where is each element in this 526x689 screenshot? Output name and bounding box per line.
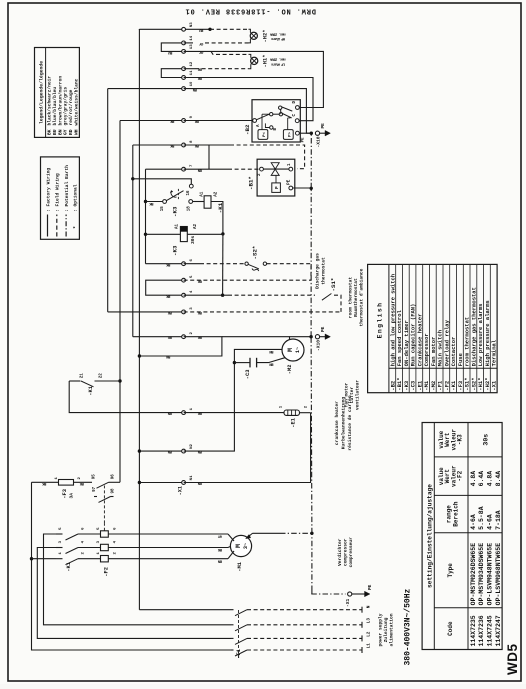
svg-text:BU: BU <box>52 129 58 135</box>
terminal -X1:N2 <box>182 449 186 453</box>
wire rail L1 to fuse F3 <box>32 481 59 483</box>
English table header row <box>388 264 390 392</box>
English table row -F1 <box>435 264 437 392</box>
rail R3 y132.8 <box>132 145 134 337</box>
svg-text:white/weiss/blanc: white/weiss/blanc <box>73 78 79 125</box>
svg-text:-X10: -X10 <box>316 136 322 147</box>
wire terminal N3 to junction <box>186 28 211 30</box>
overload relay F2 element 1-2 <box>101 556 109 562</box>
wire B2 contact D return to terminal 13 <box>184 51 324 107</box>
svg-text:Raumthermostat: Raumthermostat <box>353 278 359 317</box>
wire terminal 2 to fan jog <box>139 337 222 356</box>
B2 X10 PE terminal <box>315 131 319 135</box>
svg-text:-K3: -K3 <box>457 434 464 445</box>
svg-text:114X7245: 114X7245 <box>487 615 494 646</box>
junction F2 elements link <box>103 523 105 530</box>
svg-text:P>: P> <box>287 132 292 137</box>
earth bus fan to B1 PE <box>310 337 313 534</box>
svg-text:-S2*: -S2* <box>252 246 259 260</box>
run capacitor -C3 <box>249 358 251 368</box>
svg-text:English: English <box>377 302 384 339</box>
svg-text:12: 12 <box>190 61 194 66</box>
svg-text:max. 28VA: max. 28VA <box>269 57 285 61</box>
B2 pole circles <box>270 113 273 116</box>
svg-text:-X1: -X1 <box>345 598 351 607</box>
wire terminal 2 to rail R3 <box>133 336 184 338</box>
wire K1 coil to K3 coil junction <box>211 202 223 234</box>
K3 timer contact lever <box>166 191 183 201</box>
svg-text:-K1: -K1 <box>88 386 94 396</box>
wire terminal N1 to neutral rail <box>139 482 183 484</box>
K3 timer contact pin 15 <box>163 200 167 204</box>
English table row -M2 <box>429 264 431 392</box>
B1 internal wire <box>263 168 289 170</box>
junction neutral rail / terminal N1 <box>138 481 141 484</box>
svg-text:ventilateur: ventilateur <box>355 380 361 411</box>
svg-text:N: N <box>367 605 372 608</box>
svg-text:: Field Wiring: : Field Wiring <box>55 173 61 212</box>
svg-text:18: 18 <box>188 206 192 212</box>
svg-text:15: 15 <box>161 206 165 212</box>
svg-text:-E1: -E1 <box>291 418 297 428</box>
B2 PE pin <box>296 131 300 135</box>
wire terminal 7 to B1 terminal 2 <box>184 168 228 170</box>
svg-text:legend/Legende/légende: legend/Legende/légende <box>39 61 45 124</box>
wire K1 aux to terminal 1 line <box>69 381 183 413</box>
svg-text:N3: N3 <box>190 22 194 27</box>
svg-text:14: 14 <box>190 35 194 40</box>
terminal -X1:N1 <box>182 481 186 485</box>
svg-text:3~: 3~ <box>243 543 249 549</box>
svg-text:OP-MSTM926DSW65E: OP-MSTM926DSW65E <box>470 543 477 606</box>
wire terminal 9 to rail R2 <box>120 120 184 122</box>
svg-text:98: 98 <box>112 488 116 494</box>
wire terminal 12 to LP lamp <box>184 68 195 70</box>
B2 X10 earth arrow <box>325 130 331 136</box>
svg-text:30s: 30s <box>190 235 196 244</box>
wire K3 contact 18 to K1 coil <box>193 201 205 203</box>
mechanical link F1 poles <box>238 610 240 658</box>
junction neutral rail / fan neutral jog <box>138 354 141 357</box>
svg-text:Terminal: Terminal <box>491 339 498 366</box>
svg-text:4.8A: 4.8A <box>487 471 494 487</box>
junction fan capacitor branch <box>233 361 236 364</box>
overload relay auxiliary contact 97-98 <box>94 496 97 498</box>
jumper terminals 13-14 <box>161 43 183 52</box>
fuse F3 3A <box>59 480 74 486</box>
main switch F1 pole L3 <box>231 624 234 626</box>
K3 mechanical link dashed <box>177 188 179 199</box>
English table row -H2* <box>483 264 485 392</box>
ON-delay timer coil -K3 <box>180 227 187 242</box>
K3 timer on-delay symbol <box>171 191 177 198</box>
svg-text:alimentation: alimentation <box>389 613 395 646</box>
rail L1 control feed y31 <box>32 482 232 650</box>
B2 lever to contact D <box>282 107 292 111</box>
wire K3 coil to terminal 4 line <box>187 233 223 235</box>
terminal -X1:2 <box>182 335 186 339</box>
settings table title row <box>433 423 435 650</box>
svg-text:PE: PE <box>368 584 373 590</box>
junction rail R4 / K3 coil branch <box>144 233 147 236</box>
svg-text:HP Alarm: HP Alarm <box>270 36 285 41</box>
wire terminal 3 to rail R0 <box>108 311 184 313</box>
wire rail R4 to K3 coil <box>146 233 181 235</box>
wire fan motor to terminal 2 line <box>290 337 312 339</box>
wire B2 contact C return to terminal 11 <box>184 78 313 121</box>
svg-text:22: 22 <box>100 373 104 379</box>
neutral rail y139.4 <box>138 29 140 610</box>
wire terminal 8 to rail R3 <box>133 144 184 146</box>
junction terminal 4 line / coil return <box>221 294 224 297</box>
wire terminal 10 to X10 earth junction <box>184 89 312 134</box>
junction neutral rail / terminal N2 <box>138 449 141 452</box>
B2 high pressure sensor <box>283 130 293 140</box>
wire rail R3 to K3 contact 16 <box>133 179 192 184</box>
wire S2 to terminal 5 line <box>267 264 311 281</box>
svg-text:: Factory Wiring: : Factory Wiring <box>45 168 51 212</box>
terminal -X1:N3 <box>182 27 186 31</box>
jumper terminals 7-8 below strip <box>208 145 210 169</box>
wire B1 PE to earth bus <box>293 187 312 189</box>
contactor coil -K1 <box>204 196 211 208</box>
svg-text:-B2: -B2 <box>244 124 251 135</box>
svg-text:-S1*: -S1* <box>330 278 337 292</box>
svg-text:OP-LSVM948NTW65E: OP-LSVM948NTW65E <box>487 543 494 606</box>
wire rail R4 to K3 contact 15 <box>146 201 163 203</box>
rail R0 y107.7 terminal 3 to terminal 10 <box>107 89 109 312</box>
svg-text:-K3: -K3 <box>172 206 179 217</box>
wire capacitor to fan motor auxiliary winding <box>257 358 285 363</box>
English designation table <box>368 264 498 392</box>
rail L2 y37 <box>37 548 231 639</box>
svg-text:BK: BK <box>47 129 53 135</box>
svg-text:-X1: -X1 <box>178 486 184 495</box>
junction terminal 13 line / LP lamp hook <box>211 51 249 54</box>
svg-text:-X10: -X10 <box>316 340 322 351</box>
B1 terminal 1 <box>289 167 293 171</box>
svg-text:1~: 1~ <box>295 347 301 353</box>
svg-text:6.4A: 6.4A <box>478 471 485 487</box>
LP alarm lamp -H1* <box>251 57 258 64</box>
svg-text:4-6A: 4-6A <box>487 514 494 530</box>
compressor PE connection arrow <box>248 533 253 537</box>
svg-text:range: range <box>445 505 452 523</box>
svg-text:N2: N2 <box>190 443 194 448</box>
English table row -C3 <box>408 264 410 392</box>
svg-text:A1: A1 <box>201 191 205 197</box>
svg-text:fan motor: fan motor <box>344 382 350 407</box>
svg-text:LP Alarm: LP Alarm <box>270 61 285 66</box>
wire terminal 9 to B2 common A <box>184 120 253 122</box>
svg-text:PE: PE <box>321 326 326 332</box>
svg-text:setting/Einstellung/ajustage: setting/Einstellung/ajustage <box>426 484 433 588</box>
terminal -X1:14 <box>182 41 186 45</box>
wire terminal 5 down to S2 return <box>184 279 311 281</box>
svg-text:Verdichter: Verdichter <box>337 538 343 566</box>
English table row -S1* <box>462 264 464 392</box>
B1 triac symbol <box>271 169 279 175</box>
svg-text:BN: BN <box>57 129 63 135</box>
room thermostat S1 contact <box>322 294 332 301</box>
supply PE wire <box>311 593 345 595</box>
svg-text:blue/blau/bleu: blue/blau/bleu <box>52 87 58 126</box>
terminal -X1:9 <box>182 119 186 123</box>
supply field wire L3 <box>247 624 362 626</box>
svg-text:compressor: compressor <box>344 538 349 566</box>
svg-text:4-6A: 4-6A <box>470 514 477 530</box>
wire compressor PE to earth bus <box>253 532 281 534</box>
svg-text:P: P <box>275 186 280 189</box>
supply field wire L2 <box>247 637 362 639</box>
discharge gas thermostat S2 contact <box>245 262 248 265</box>
junction B2 X10 PE <box>310 132 313 135</box>
svg-text:21: 21 <box>81 373 85 379</box>
svg-text:Code: Code <box>447 621 454 636</box>
mechanical link overload relay to aux contacts <box>103 486 105 524</box>
B1 PE terminal <box>289 186 293 190</box>
overload relay F2 element 3-4 <box>101 544 109 550</box>
crankcase heater -E1 <box>184 412 284 414</box>
terminal -X1:12 <box>182 67 186 71</box>
terminal -X1:5 <box>182 278 186 282</box>
B2 lever to contact C <box>282 114 291 118</box>
svg-text:: Optional: : Optional <box>73 184 79 212</box>
English table row -K3 <box>401 264 403 392</box>
svg-text:5.5-8A: 5.5-8A <box>478 506 485 530</box>
run capacitor -C3 branch wire <box>234 362 250 364</box>
wire terminal 3 down to S1 return <box>184 311 341 313</box>
svg-text:P<: P< <box>262 132 267 137</box>
wire terminal N2 to neutral rail <box>139 450 183 452</box>
wire terminal 8 to B1 terminal 1 <box>184 144 230 146</box>
junction fan X10 PE <box>309 335 312 338</box>
svg-text:A1: A1 <box>176 223 180 229</box>
junction rail R3 / K3 contact 16 branch <box>131 177 134 180</box>
svg-text:thermostat: thermostat <box>321 257 327 285</box>
K3 timer contact pin 16 <box>189 184 193 188</box>
svg-text:114X7235: 114X7235 <box>470 615 477 646</box>
K3 timer contact pin 18 <box>189 200 193 204</box>
English table row -H1* <box>476 264 478 392</box>
terminal -X1:11 <box>182 76 186 80</box>
svg-text:A2: A2 <box>194 223 198 229</box>
junction compressor PE / earth bus <box>310 532 313 535</box>
svg-text:96: 96 <box>112 474 116 480</box>
svg-text:black/schwarz/noir: black/schwarz/noir <box>47 76 53 126</box>
legend box line styles <box>41 157 80 239</box>
svg-text:-H1*: -H1* <box>263 55 269 68</box>
B2 contact C <box>295 119 299 123</box>
svg-text:Lüfter: Lüfter <box>349 386 355 403</box>
svg-text:*: * <box>73 226 79 229</box>
compressor motor -M1 <box>230 535 251 556</box>
contactor K1 pole 5-6 <box>56 533 63 535</box>
svg-text:-F3: -F3 <box>62 489 68 499</box>
svg-text:13: 13 <box>190 44 194 49</box>
svg-text:-K3: -K3 <box>172 245 179 256</box>
svg-text:114X7236: 114X7236 <box>478 615 485 646</box>
wire terminal 6 to discharge gas thermostat <box>184 263 200 265</box>
terminal -X1:3 <box>182 310 186 314</box>
rail R2 y120 F3 feed <box>119 121 121 483</box>
junction rail L1/BN phase <box>30 557 33 560</box>
svg-text:brown/braun/marron: brown/braun/marron <box>57 76 63 126</box>
wire M1 phase BN into motor <box>228 551 234 559</box>
svg-text:-C3: -C3 <box>245 370 251 380</box>
pressure switch -B2 enclosure <box>252 100 300 142</box>
English table row -F2 <box>442 264 444 392</box>
svg-text:RD: RD <box>68 129 74 135</box>
HP alarm lamp -H2* <box>250 32 257 39</box>
svg-text:N1: N1 <box>190 475 194 480</box>
settings table header underline <box>467 423 469 650</box>
B2 low pressure sensor <box>258 130 268 140</box>
wire terminal N3 to neutral rail <box>139 28 183 30</box>
svg-text:grey/gray/gris: grey/gray/gris <box>63 87 69 126</box>
English table row -F3 <box>456 264 458 392</box>
wire B2 PE to X10 <box>299 132 311 134</box>
fan motor -M2 <box>282 339 304 361</box>
svg-text:-B1*: -B1* <box>248 176 255 190</box>
svg-text:380-400V3N~/50Hz: 380-400V3N~/50Hz <box>404 588 413 665</box>
English table row -E1 <box>415 264 417 392</box>
svg-text:OP-MSTM934DSW65E: OP-MSTM934DSW65E <box>478 543 485 606</box>
jumper terminals 11-12 <box>161 69 183 78</box>
svg-text:thermostat d'ambiance: thermostat d'ambiance <box>359 268 365 326</box>
svg-text:Discharge gas: Discharge gas <box>315 253 321 289</box>
svg-text:Bereich: Bereich <box>452 501 459 527</box>
wire terminal 7 to rail R4 <box>146 168 184 170</box>
supply field wire N <box>247 609 362 611</box>
svg-text:7-18A: 7-18A <box>495 510 502 530</box>
svg-text:-M1: -M1 <box>237 562 243 572</box>
B2 lever A to pole <box>256 114 269 120</box>
wire M1 phase GY into motor <box>228 534 234 541</box>
svg-text:M: M <box>287 348 294 352</box>
B2 contact B <box>270 126 273 129</box>
English table row -B1* <box>395 264 397 392</box>
English table designator column separator <box>389 367 497 369</box>
wire terminal N1 to crankcase heater <box>184 413 311 483</box>
svg-text:L3: L3 <box>367 618 372 624</box>
svg-text:97: 97 <box>93 486 97 492</box>
legend box colour codes <box>35 48 80 138</box>
svg-text:11: 11 <box>190 70 194 75</box>
wire fan neutral N2 to fan motor <box>184 349 283 451</box>
terminal -X1:4 <box>182 293 186 297</box>
legend field wiring sample <box>56 215 58 237</box>
svg-text:Type: Type <box>447 563 454 578</box>
fan X10 earth arrow <box>325 334 331 340</box>
svg-text:crankcase heater: crankcase heater <box>334 401 340 445</box>
svg-text:DRW. NO. -118R6338 REV. 01: DRW. NO. -118R6338 REV. 01 <box>185 7 316 15</box>
jumper terminals 4-5 <box>146 280 184 295</box>
legend factory wiring sample <box>47 215 49 237</box>
wire terminal 4 to discharge/room thermostat <box>184 294 223 296</box>
B1 pressure sensor box <box>272 183 281 193</box>
terminal -X1:10 <box>182 87 186 91</box>
svg-text:-X1: -X1 <box>491 380 498 391</box>
wire terminal 10 to rail R0 <box>108 88 184 90</box>
main switch F1 pole L1 <box>231 649 234 651</box>
supply PE earth arrow <box>365 591 371 597</box>
svg-text:power supply: power supply <box>378 613 384 646</box>
earth bus to supply PE corner <box>311 533 313 591</box>
svg-text:114X7247: 114X7247 <box>495 615 502 646</box>
contactor K1 pole 3-4 <box>56 547 63 549</box>
svg-text:8.4A: 8.4A <box>495 471 502 487</box>
svg-text:WH: WH <box>73 129 79 135</box>
wire terminal 1 feed from K1 auxiliary contact <box>95 380 121 382</box>
svg-text:Zuleitung: Zuleitung <box>383 617 389 642</box>
wire terminal 14 to HP lamp <box>184 42 193 44</box>
wire BN phase drop from rail L1 <box>32 558 57 560</box>
svg-text:-F2: -F2 <box>457 470 464 481</box>
rail R4 y145.5 between terminals 6 and 7 <box>145 169 147 264</box>
svg-text:WD5: WD5 <box>505 644 520 676</box>
svg-text:max. 28VA: max. 28VA <box>269 32 285 36</box>
svg-text:3A: 3A <box>69 493 75 499</box>
wire S1 to terminal 3 line <box>334 295 341 312</box>
junction B1 PE / earth bus <box>310 187 313 190</box>
English table row -M1 <box>422 264 424 392</box>
terminal -X1:8 <box>182 143 186 147</box>
English table row -S2* <box>469 264 471 392</box>
contactor K1 pole 1-2 <box>56 558 63 560</box>
overload relay F2 element 5-6 <box>101 531 109 537</box>
svg-text:: Potential Earth: : Potential Earth <box>64 165 70 212</box>
legend potential earth sample <box>65 215 67 237</box>
junction rail R2 / K1 aux 21-22 branch <box>118 379 121 382</box>
svg-text:-M2: -M2 <box>287 365 293 375</box>
English table row -K1 <box>449 264 451 392</box>
B2 contact D <box>296 106 300 110</box>
wire terminal 6 to rail R4 <box>146 263 184 265</box>
svg-text:PE: PE <box>288 179 292 185</box>
svg-text:16: 16 <box>187 190 191 196</box>
svg-text:-H2*: -H2* <box>263 30 269 43</box>
fan X10 PE terminal <box>315 335 319 339</box>
English table row -X1 <box>489 264 491 392</box>
wire terminal 2 line down to fan motor <box>222 336 290 338</box>
main switch F1 neutral pole <box>139 609 233 611</box>
svg-text:L1: L1 <box>367 643 372 649</box>
svg-text:room thermostat: room thermostat <box>348 277 354 319</box>
terminal -X1:6 <box>182 262 186 266</box>
svg-text:10: 10 <box>190 81 194 86</box>
svg-text:-F2: -F2 <box>104 567 110 577</box>
wire M1 phase BK into motor <box>228 547 230 548</box>
overload relay auxiliary contact 95-96 <box>97 482 109 488</box>
B1 sensor to triac wire <box>275 176 277 183</box>
svg-text:PE: PE <box>302 137 306 142</box>
terminal -X1:13 <box>182 50 186 54</box>
svg-text:PE: PE <box>321 123 326 129</box>
svg-text:OP-LSVM968NTW65E: OP-LSVM968NTW65E <box>495 543 502 606</box>
earth bus B1 to B2 X10 <box>310 133 312 188</box>
supply field wire L1 <box>247 649 362 651</box>
svg-text:GY: GY <box>63 129 69 135</box>
fan speed control -B1* enclosure <box>257 159 295 196</box>
settings table <box>422 423 502 650</box>
main switch F1 pole L2 <box>231 637 234 639</box>
svg-text:30s: 30s <box>483 434 490 446</box>
supply PE terminal circle <box>348 592 352 596</box>
junction K1 coil return / K3 coil return <box>221 232 224 235</box>
B1 terminal 2 <box>260 167 264 171</box>
B2 contact A <box>253 119 257 123</box>
